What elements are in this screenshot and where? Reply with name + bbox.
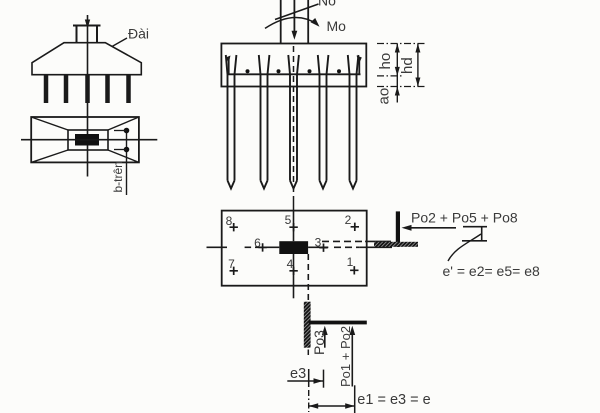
svg-text:b-trên: b-trên	[111, 161, 125, 192]
pile S4	[318, 55, 329, 189]
plan rectangle	[222, 211, 367, 286]
svg-text:Po2 + Po5 + Po8: Po2 + Po5 + Po8	[411, 210, 518, 226]
svg-text:e3: e3	[290, 366, 306, 382]
e' dimension	[463, 226, 487, 228]
pile S1	[226, 55, 237, 189]
dim line ho/ao	[396, 44, 398, 103]
black column rect	[75, 134, 99, 146]
svg-text:6: 6	[254, 236, 261, 250]
svg-text:ao: ao	[376, 88, 393, 105]
vertical centerline	[293, 211, 295, 241]
inner rectangle	[68, 130, 108, 150]
arrow Po1 + Po2	[351, 332, 353, 387]
rebar line	[227, 73, 361, 75]
piles elevation (5 thick bars)	[44, 75, 49, 103]
diagonals	[31, 117, 68, 130]
outer rectangle	[31, 117, 139, 162]
svg-text:Po1 + Po2: Po1 + Po2	[338, 326, 353, 387]
force arrow Po2+Po5+Po8	[409, 227, 456, 229]
svg-text:2: 2	[345, 213, 352, 227]
svg-text:4: 4	[287, 257, 294, 271]
bottom dimension e1 = e3 = e	[308, 390, 310, 412]
arrow on centerline top	[85, 20, 90, 29]
svg-text:8: 8	[226, 214, 233, 228]
rebar right hook	[358, 58, 360, 74]
Mo moment arc	[265, 17, 317, 28]
black column rect (plan)	[279, 241, 308, 254]
b-tren dimension line	[126, 128, 128, 195]
pile S2	[259, 55, 270, 189]
No leader + label	[275, 4, 319, 20]
extension lines	[377, 44, 426, 87]
vertical hatch bar	[304, 302, 311, 348]
svg-text:No: No	[318, 0, 336, 9]
No force arrow	[293, 0, 295, 36]
pile crosses	[230, 223, 360, 275]
arrow Po3	[324, 332, 326, 348]
svg-text:e' = e2= e5= e8: e' = e2= e5= e8	[443, 263, 540, 279]
pile cap trapezoid (Đài)	[32, 43, 141, 75]
thick horizontal bar	[309, 321, 367, 325]
dim line hd	[417, 44, 419, 87]
column lines	[280, 0, 282, 44]
label Đài	[112, 38, 127, 47]
cap rectangle (section)	[221, 44, 366, 87]
hatch band	[374, 242, 418, 247]
rebar dots	[246, 69, 250, 73]
svg-text:Mo: Mo	[327, 18, 347, 34]
pile numbers	[226, 213, 354, 271]
horizontal centerline	[207, 246, 228, 248]
svg-text:e1 = e3 = e: e1 = e3 = e	[357, 392, 430, 408]
svg-text:hd: hd	[399, 57, 416, 74]
centerline (left views vertical axis)	[87, 15, 89, 177]
center dashed axis through middle pile	[293, 46, 295, 198]
leader curve	[448, 234, 481, 261]
horizontal centerline	[21, 139, 157, 141]
thick vertical bar	[396, 211, 400, 247]
pile S5	[348, 55, 359, 189]
svg-text:Đài: Đài	[128, 26, 149, 42]
dashed line to right hatch	[322, 240, 365, 242]
piles (section) with dowels	[226, 55, 359, 189]
pile S3	[288, 55, 299, 189]
svg-text:5: 5	[285, 213, 292, 227]
svg-text:ho: ho	[377, 53, 394, 70]
svg-text:3: 3	[315, 236, 322, 250]
rebar left hook	[228, 58, 230, 74]
svg-text:Po3: Po3	[311, 330, 327, 355]
column stub	[76, 26, 78, 44]
svg-text:7: 7	[228, 257, 235, 271]
svg-text:1: 1	[347, 255, 354, 269]
dashed vertical to bottom hatch	[307, 254, 309, 302]
